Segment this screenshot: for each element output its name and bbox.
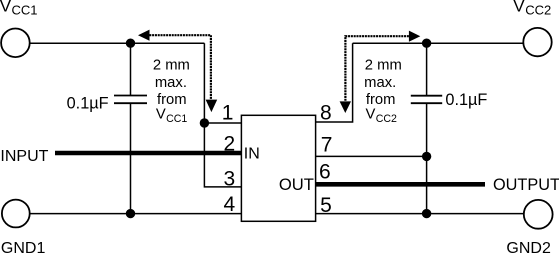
annotation arrow right dotted [340,31,421,113]
svg-text:OUTPUT: OUTPUT [493,176,559,194]
svg-text:from: from [157,92,187,108]
wire VCC2 drop to pin 8 [316,43,353,122]
wire right capacitor branch upper [426,43,428,95]
svg-text:2: 2 [224,132,236,155]
terminal GND1 [2,200,30,228]
svg-text:OUT: OUT [279,175,314,194]
svg-text:8: 8 [320,102,332,125]
svg-text:from: from [366,92,396,108]
IC U1 body [241,115,315,221]
svg-text:2 mm: 2 mm [153,57,190,73]
svg-text:1: 1 [222,101,234,124]
wire VCC2 rail [353,42,538,44]
wire VCC1 drop to pin 1 [204,43,241,123]
node junction pin1/pin3 [200,118,209,127]
wire VCC1 rail [16,42,205,44]
svg-text:3: 3 [224,167,236,190]
svg-text:0.1µF: 0.1µF [67,95,109,113]
svg-text:0.1µF: 0.1µF [445,91,487,109]
wire pin 7 stub [316,155,427,157]
wire OUTPUT thick [316,182,485,187]
svg-text:6: 6 [319,161,331,184]
svg-text:max.: max. [364,75,396,91]
wire right capacitor branch lower [426,103,428,213]
svg-text:GND1: GND1 [1,240,46,254]
terminal VCC1 [1,29,30,58]
wire left capacitor branch upper [130,43,132,95]
node junction pin5/GND2 [422,209,431,218]
capacitor C2 plates [411,96,442,104]
terminal GND2 [524,200,553,229]
node junction GND1/C1 [126,209,135,218]
node junction pin7/C2 [422,152,431,161]
wire pin 5 / GND2 rail [316,213,539,215]
wire pin1 to pin3 link [204,123,241,187]
svg-text:VCC2: VCC2 [513,0,551,18]
svg-text:VCC1: VCC1 [0,0,37,18]
annotation arrow left dotted [138,30,217,113]
svg-text:2 mm: 2 mm [365,57,402,73]
svg-text:7: 7 [321,134,333,157]
node junction VCC2/C2 [422,39,431,48]
annotation text left 2mm max from VCC1 [153,57,190,125]
svg-text:GND2: GND2 [506,240,551,254]
svg-text:INPUT: INPUT [0,148,48,165]
svg-text:IN: IN [244,146,260,163]
svg-text:5: 5 [320,194,332,217]
annotation text right 2mm max from VCC2 [364,57,402,125]
terminal VCC2 [523,28,551,56]
capacitor C1 plates [114,96,147,104]
wire GND1 rail to pin 4 [16,213,242,215]
svg-text:4: 4 [224,193,236,216]
wire INPUT thick [55,151,241,156]
svg-text:max.: max. [155,75,187,91]
node junction VCC1/C1 [126,39,135,48]
wire left capacitor branch lower [130,103,132,213]
